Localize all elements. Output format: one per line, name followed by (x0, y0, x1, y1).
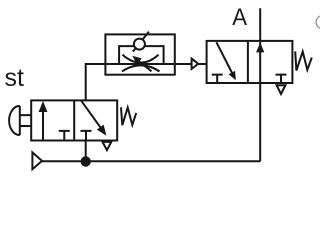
valve V2 left square diagonal arrow head (229, 71, 236, 80)
junction dot (81, 156, 91, 166)
valve V2 blocked port T (left square) (212, 75, 223, 83)
flow control valve U1 body (105, 34, 174, 74)
valve V1 body (31, 100, 117, 140)
wire: vertical P/A line through valve V2 up to node A (259, 8, 261, 161)
valve V1 divider (73, 100, 75, 140)
valve V1 return spring (121, 107, 136, 125)
valve V1 exhaust triangle (103, 142, 112, 150)
wire: pilot line into valve V2 (198, 63, 206, 65)
adjustment arrow shaft (139, 61, 152, 71)
valve V2 exhaust triangle (277, 85, 286, 94)
valve V2 body (207, 41, 293, 83)
throttle upper arc (122, 55, 158, 63)
valve V1 push button cap (9, 106, 20, 135)
wire: supply line from source to valve V2 bottom (42, 160, 260, 162)
valve V2 flow arrow head (P to A) (256, 43, 264, 53)
valve V2 pilot triangle (192, 59, 199, 69)
wire: left valve V1 output up to flow control (86, 64, 106, 100)
valve V2 blocked vent T (right square) (276, 75, 287, 83)
svg-text:st: st (5, 64, 25, 92)
check valve ball (134, 39, 145, 50)
valve V1 left square flow arrow shaft (42, 111, 44, 141)
bypass loop (119, 46, 164, 64)
wire: left valve V1 supply stem down to junction (85, 141, 87, 162)
svg-text:A: A (232, 4, 248, 31)
throttle lower arc (122, 65, 160, 71)
valve V1 right square diagonal arrow (81, 101, 101, 129)
valve V1 blocked T (left square) (59, 131, 70, 141)
valve V1 push button rods (20, 115, 31, 126)
valve V1 blocked port T (right square) (81, 131, 92, 141)
valve V1 right square diagonal arrow head (97, 125, 107, 136)
annotation circle (clipped at right edge) (316, 16, 320, 29)
valve V2 return spring (295, 51, 312, 70)
valve V2 divider (247, 41, 249, 83)
compressed air source (32, 152, 42, 169)
wire: main line through flow control to pilot (105, 63, 191, 65)
valve V2 left square diagonal arrow (216, 42, 232, 73)
adjustment arrow head (132, 56, 141, 65)
check valve seat (133, 32, 149, 52)
valve V1 left square flow arrow head (39, 101, 48, 112)
valve V1 push button plate (19, 106, 21, 135)
